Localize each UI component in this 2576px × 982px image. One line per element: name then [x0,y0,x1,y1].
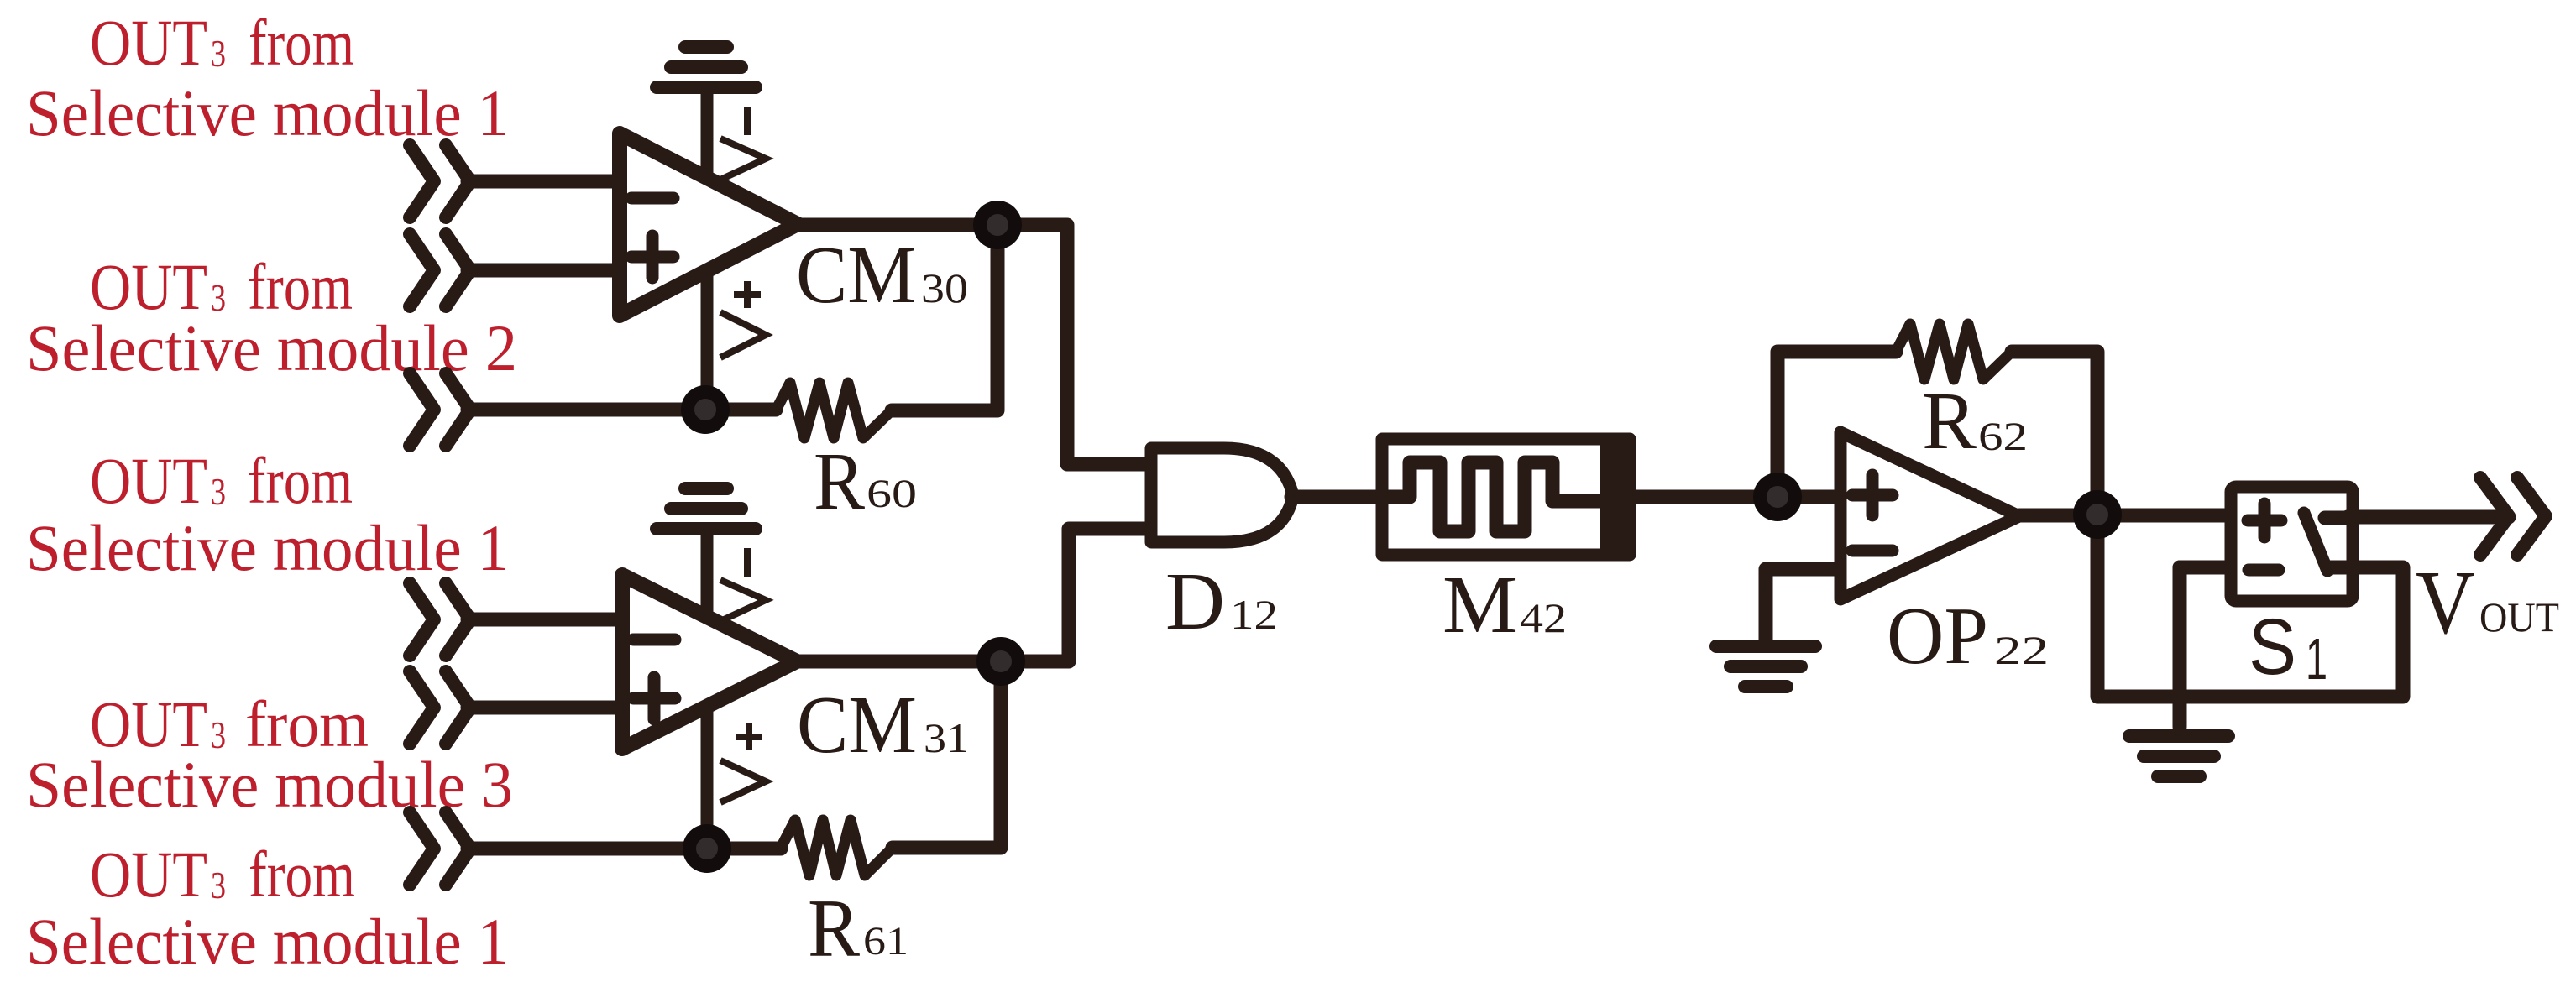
OP22 non-inverting plus mark [1852,489,1893,502]
wire IN4 (to CM31 -) [468,613,622,627]
wire CM31 feedback: output node down to R61 right lead [893,661,1001,848]
svg-text:Selective module 1: Selective module 1 [26,905,509,978]
wire CM30 output to node and down to AND gate top input [798,225,1158,464]
wire CM30 supply/ground stem [701,92,714,410]
wire OP22 feedback: + node up, over R62, down to output node [1778,352,1896,497]
resistor R60 [776,383,892,438]
ground (below OP22 - input) [1716,640,1815,653]
svg-text:12: 12 [1230,591,1278,638]
CM30 non-inverting input plus mark [631,251,673,264]
svg-text:62: 62 [1978,415,2028,459]
svg-text:CM: CM [797,680,917,770]
CM31 lower rail chevron mark [720,760,766,802]
wire S1 lower loop (output node down, around S1 label box) [2097,515,2403,697]
svg-text:D: D [1165,556,1225,646]
comparator CM31 triangle [622,575,797,749]
ground (below S1 loop) [2129,729,2228,743]
svg-text:60: 60 [867,472,917,516]
svg-text:OP: OP [1887,591,1988,681]
wire OP22 output node to switch S1 [2097,509,2233,523]
resistor R62 [1896,324,2012,379]
svg-text:30: 30 [921,264,968,311]
wire IN6 (to R61 node) [468,842,781,856]
svg-text:CM: CM [796,230,916,320]
memristor M42 outline [1382,439,1630,555]
wire CM31 output to node and up to AND gate bottom input [797,529,1158,661]
svg-text:R: R [1922,376,1977,466]
svg-text:3: 3 [211,864,226,906]
ground (top, above CM31) [657,522,756,535]
wire IN5 (to CM31 +) [468,701,622,715]
svg-text:S: S [2249,603,2296,692]
input chevron arrow IN4 (to CM31 -) [410,583,434,656]
wire R62 right lead down to output node [2012,352,2097,515]
wire IN3 (to R60 node) [468,403,776,417]
wire OP22 output to node [2019,509,2097,523]
svg-text:R: R [808,883,860,974]
svg-text:from: from [249,6,354,79]
svg-text:OUT: OUT [90,444,207,517]
wire S1 output through box to VOUT [2325,511,2351,525]
svg-text:42: 42 [1520,594,1567,641]
memristor M42 meander element [1387,462,1607,531]
input chevron arrow IN2 (to CM30 +) [410,234,434,306]
CM31 non-inverting input plus mark [633,692,675,705]
S1 plus terminal mark [2248,515,2281,527]
CM30 upper rail tick mark [744,107,751,135]
wire CM30 feedback: output node down to R60 right lead [892,225,997,410]
wire M42 output to OP22 + input node [1630,490,1840,504]
svg-text:OUT: OUT [90,838,207,911]
op-amp OP22 triangle [1840,432,2019,599]
svg-text:from: from [249,838,355,911]
svg-text:M: M [1442,560,1517,650]
S1 minus terminal mark [2249,564,2279,577]
svg-text:OUT: OUT [2479,593,2559,640]
input chevron arrow IN1 (to CM30 -) [410,145,434,217]
switch S1 box [2231,487,2353,601]
svg-text:from: from [248,444,353,517]
S1 switch blade [2304,513,2327,571]
comparator CM30 triangle [620,133,798,316]
wire S1 blade to right edge stub [2327,561,2361,575]
CM31 inverting input minus mark [633,634,675,646]
input chevron arrow IN5 (to CM31 +) [410,671,434,744]
wire S1 loop left branch to ground [2173,567,2187,727]
wire CM31 supply/ground stem [701,534,714,849]
AND gate D12 body [1151,448,1293,542]
svg-text:Selective module 1: Selective module 1 [26,511,509,584]
svg-text:V: V [2416,553,2475,653]
node: CM31 output junction [976,637,1025,686]
CM31 upper rail chevron mark [720,580,766,621]
svg-text:OUT: OUT [90,6,207,79]
OP22 inverting minus mark [1852,545,1893,557]
svg-text:1: 1 [2306,626,2327,692]
resistor R61 [781,820,893,875]
svg-text:61: 61 [863,919,908,964]
svg-text:3: 3 [211,470,226,513]
wire OP22 inverting input to ground [1766,569,1843,640]
node: OP22 + input junction [1753,473,1802,521]
wire IN1 (to CM30 -) [468,175,620,189]
CM30 lower rail plus mark [734,291,761,298]
output chevron arrow VOUT [2480,478,2509,555]
CM30 lower rail chevron mark [720,312,766,358]
CM31 lower rail plus mark [736,734,762,740]
svg-text:31: 31 [924,714,969,761]
input chevron arrow IN6 (to R61 node) [410,812,434,885]
node: CM30 feedback input junction [681,385,730,434]
svg-text:R: R [814,436,865,526]
ground (top, above CM30) [657,81,756,94]
CM31 upper rail tick mark [744,548,751,577]
wire IN2 (to CM30 +) [468,264,620,278]
CM30 inverting input minus mark [631,192,673,205]
svg-text:22: 22 [1994,629,2049,673]
memristor M42 filled electrode bar [1600,434,1631,560]
svg-text:Selective module 1: Selective module 1 [26,76,509,149]
input chevron arrow IN3 (to R60 node) [410,373,434,446]
node: OP22 output junction [2073,490,2122,539]
node: CM30 output junction [973,201,1022,249]
wire D12 output to memristor M42 [1291,490,1394,504]
CM30 upper rail chevron mark [720,138,766,180]
svg-text:3: 3 [211,32,226,75]
node: CM31 feedback input junction [683,824,731,873]
